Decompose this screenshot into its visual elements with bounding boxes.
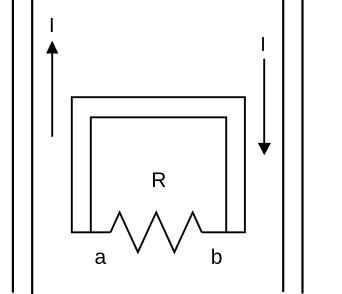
wire: left conductor, inner line (31, 0, 33, 294)
loop: inner rectangle conductor (open at bottom) (91, 117, 226, 232)
wire: right conductor, outer line (301, 0, 303, 294)
svg-text:R: R (151, 169, 166, 192)
wire: bottom segment from loop left side to node a (71, 231, 111, 233)
loop: outer rectangle conductor (open at bottom) (72, 97, 245, 232)
svg-text:I: I (49, 15, 55, 37)
svg-text:b: b (211, 246, 223, 269)
svg-text:I: I (260, 34, 266, 56)
svg-text:a: a (94, 246, 106, 269)
current arrow (right, pointing down) (258, 59, 271, 156)
current arrow (left, pointing up) (46, 41, 58, 137)
wire: bottom segment from node b to loop right side (202, 231, 246, 233)
resistor R (zigzag between a and b) (111, 212, 202, 252)
wire: right conductor, inner line (282, 0, 284, 292)
wire: left conductor, outer line (12, 0, 14, 293)
